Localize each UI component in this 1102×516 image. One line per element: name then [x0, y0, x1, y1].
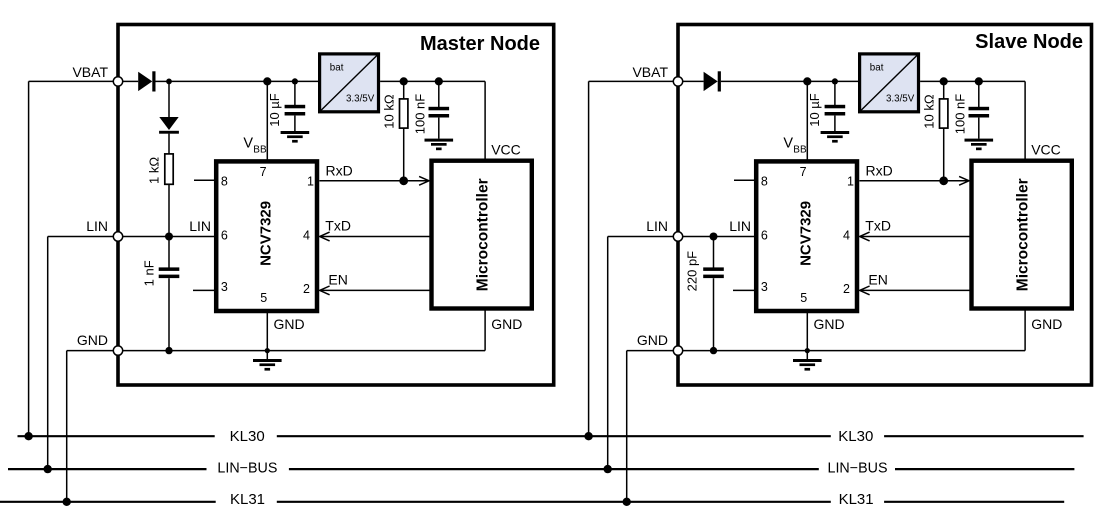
- wire VBAT drop to KL30 (master): [28, 81, 30, 436]
- junction LIN / cap (master): [165, 233, 173, 241]
- junction VBAT/KL30 (master): [24, 432, 32, 440]
- arrowhead TxD into NCV7329 (master): [320, 232, 330, 241]
- svg-text:GND: GND: [1031, 316, 1062, 332]
- svg-text:1: 1: [307, 175, 314, 189]
- resistor 1 kOhm LIN pull-up (master): [165, 154, 173, 184]
- svg-text:100 nF: 100 nF: [412, 94, 427, 135]
- wire RxD (slave): [859, 180, 968, 182]
- svg-text:GND: GND: [77, 332, 108, 348]
- junction RxD pull-up (slave): [939, 176, 948, 185]
- svg-text:VBAT: VBAT: [72, 64, 108, 80]
- svg-text:LIN−BUS: LIN−BUS: [828, 460, 888, 476]
- svg-text:TxD: TxD: [865, 218, 891, 234]
- svg-text:EN: EN: [868, 271, 887, 287]
- node LIN terminal (master): [113, 232, 122, 241]
- svg-text:KL30: KL30: [230, 428, 265, 445]
- wire LIN drop to LIN-BUS (slave): [607, 237, 609, 470]
- svg-text:LIN: LIN: [86, 218, 108, 234]
- wire 10uF bottom lead (master): [294, 116, 296, 131]
- wire 1nF top lead (master): [168, 237, 170, 269]
- wire VBAT to diode anode (slave): [683, 80, 704, 82]
- wire diode to 1k resistor (master): [168, 134, 170, 154]
- wire VCC down to microcontroller (master): [484, 81, 486, 160]
- junction 1nF/GND rail (master): [165, 347, 172, 354]
- capacitor C1 10 uF (slave): [825, 105, 846, 116]
- wire VCC down to microcontroller (slave): [1024, 81, 1026, 160]
- svg-text:GND: GND: [491, 316, 522, 332]
- junction VCC/10k (slave): [940, 77, 948, 85]
- svg-text:RxD: RxD: [866, 163, 893, 179]
- wire diode cathode to junction (master): [156, 80, 170, 82]
- wire TxD (slave): [860, 236, 971, 238]
- svg-text:VBAT: VBAT: [632, 64, 668, 80]
- svg-text:3: 3: [221, 280, 228, 294]
- svg-text:LIN: LIN: [189, 218, 211, 234]
- wire VBAT rail VBB to 10uF (slave): [807, 80, 835, 82]
- svg-text:BB: BB: [253, 145, 267, 156]
- wire VBB down to pin 7 (slave): [806, 81, 808, 161]
- junction VCC/100nF (master): [435, 77, 443, 85]
- svg-text:bat: bat: [330, 63, 344, 74]
- ground below 10uF (master): [281, 131, 310, 143]
- svg-text:2: 2: [843, 282, 850, 296]
- svg-text:3: 3: [761, 280, 768, 294]
- IC U1 NCV7329 transceiver (slave): [756, 161, 857, 311]
- diode D3 LIN pull-up (master): [159, 117, 179, 134]
- Slave node box: [678, 25, 1092, 386]
- junction LIN/LIN-BUS (slave): [604, 465, 612, 473]
- svg-text:8: 8: [761, 175, 768, 189]
- wire 100nF bottom lead (slave): [978, 118, 980, 139]
- arrowhead TxD into NCV7329 (slave): [860, 232, 870, 241]
- svg-text:GND: GND: [814, 316, 845, 332]
- svg-text:LIN: LIN: [729, 218, 751, 234]
- svg-text:TxD: TxD: [325, 218, 351, 234]
- bus line LIN-BUS: [8, 468, 1074, 470]
- junction VBAT/KL30 (slave): [584, 432, 592, 440]
- arrowhead RxD into microcontroller (slave): [959, 176, 969, 185]
- wire VCC rail from regulator (slave): [920, 80, 1025, 82]
- junction 220pF/GND rail (slave): [710, 347, 717, 354]
- wire 10uF top lead (master): [294, 81, 296, 105]
- wire 100nF bottom lead (master): [438, 118, 440, 139]
- wire 1nF bottom lead (master): [168, 278, 170, 350]
- arrowhead EN into NCV7329 (master): [320, 286, 330, 295]
- junction LIN / cap (slave): [710, 233, 718, 241]
- bus line KL31: [0, 501, 1064, 503]
- junction GND rail / pin5 (master): [265, 348, 270, 353]
- svg-text:bat: bat: [870, 63, 884, 74]
- wire EN (master): [320, 289, 431, 291]
- svg-text:RxD: RxD: [326, 163, 353, 179]
- svg-text:Master Node: Master Node: [420, 33, 540, 55]
- ground below 100nF (master): [425, 139, 454, 151]
- svg-text:7: 7: [800, 165, 807, 179]
- wire VBAT stub outside (slave): [589, 80, 674, 82]
- svg-text:V: V: [243, 136, 253, 152]
- IC U2 Microcontroller (master): [432, 161, 532, 309]
- svg-text:NCV7329: NCV7329: [797, 201, 814, 266]
- wire GND rail to microcontroller (slave): [1024, 309, 1026, 351]
- junction VBB tap (slave): [803, 77, 811, 85]
- svg-text:4: 4: [843, 229, 850, 243]
- IC U2 Microcontroller (slave): [972, 161, 1072, 309]
- wire LIN stub outside (slave): [608, 236, 674, 238]
- ground below 100nF (slave): [965, 139, 994, 151]
- node VBAT terminal (master): [113, 77, 122, 86]
- wire GND drop to KL31 (slave): [626, 351, 628, 502]
- wire 220pF top lead (slave): [713, 237, 715, 269]
- svg-text:GND: GND: [637, 332, 668, 348]
- wire 10k top lead (slave): [943, 81, 945, 99]
- junction GND rail / pin5 (slave): [805, 348, 810, 353]
- wire GND drop to KL31 (master): [66, 351, 68, 502]
- wire VBAT rail to regulator input (slave): [835, 80, 858, 82]
- node GND terminal (slave): [673, 346, 682, 355]
- junction GND/KL31 (slave): [623, 498, 631, 506]
- ground below 10uF (slave): [821, 131, 850, 143]
- svg-text:10 µF: 10 µF: [267, 93, 282, 127]
- junction LIN/LIN-BUS (master): [44, 465, 52, 473]
- ground symbol GND rail (master): [253, 359, 282, 371]
- svg-text:1 kΩ: 1 kΩ: [147, 157, 162, 184]
- wire RxD (master): [319, 180, 428, 182]
- svg-text:10 kΩ: 10 kΩ: [381, 94, 396, 129]
- wire 10k bottom lead to RxD (master): [403, 128, 405, 181]
- arrowhead EN into NCV7329 (slave): [860, 286, 870, 295]
- junction VBB tap (master): [263, 77, 271, 85]
- ground symbol GND rail (slave): [793, 359, 822, 371]
- wire VBAT stub outside (master): [29, 80, 114, 82]
- wire 100nF top lead (slave): [978, 81, 980, 107]
- wire TxD (master): [320, 236, 431, 238]
- svg-text:220 pF: 220 pF: [684, 251, 699, 292]
- node LIN terminal (slave): [673, 232, 682, 241]
- wire VCC rail from regulator (master): [380, 80, 485, 82]
- svg-text:3.3/5V: 3.3/5V: [346, 93, 375, 104]
- wire VBAT rail VBB to 10uF (master): [267, 80, 295, 82]
- svg-text:100 nF: 100 nF: [952, 94, 967, 135]
- svg-text:LIN−BUS: LIN−BUS: [217, 460, 277, 476]
- wire pin 5 to GND rail (slave): [806, 311, 808, 351]
- junction 10uF tap (master): [292, 78, 298, 84]
- junction 10uF tap (slave): [832, 78, 838, 84]
- wire VBAT rail to VBB tap (master): [169, 80, 267, 82]
- wire LIN to pin 6 (slave): [683, 236, 754, 238]
- svg-text:10 kΩ: 10 kΩ: [921, 94, 936, 129]
- wire LIN drop to LIN-BUS (master): [47, 237, 49, 470]
- wire 10k bottom lead to RxD (slave): [943, 128, 945, 181]
- junction VCC/10k (master): [400, 77, 408, 85]
- capacitor C1 10 uF (master): [285, 105, 306, 116]
- node VBAT terminal (slave): [673, 77, 682, 86]
- svg-text:4: 4: [303, 229, 310, 243]
- junction VCC/100nF (slave): [975, 77, 983, 85]
- svg-text:GND: GND: [274, 316, 305, 332]
- wire 10uF top lead (slave): [834, 81, 836, 105]
- svg-text:EN: EN: [328, 271, 347, 287]
- svg-text:Microcontroller: Microcontroller: [474, 178, 491, 291]
- wire 100nF top lead (master): [438, 81, 440, 107]
- wire GND stub outside (master): [67, 350, 114, 352]
- wire 1k to LIN (master): [168, 184, 170, 236]
- voltage regulator bat 3.3/5V (slave): [860, 54, 919, 112]
- svg-text:1 nF: 1 nF: [142, 260, 157, 286]
- diode D1 series reverse-protection (master): [138, 71, 155, 91]
- svg-text:2: 2: [303, 282, 310, 296]
- wire branch diode lead (master): [168, 81, 170, 117]
- wire GND rail to microcontroller (master): [484, 309, 486, 351]
- svg-text:KL31: KL31: [839, 491, 874, 508]
- wire VBB down to pin 7 (master): [266, 81, 268, 161]
- svg-text:Slave Node: Slave Node: [975, 31, 1083, 53]
- svg-text:V: V: [783, 136, 793, 152]
- wire LIN to pin 6 (master): [123, 236, 214, 238]
- wire LIN stub outside (master): [48, 236, 114, 238]
- svg-text:VCC: VCC: [1031, 142, 1061, 158]
- svg-text:KL31: KL31: [230, 491, 265, 508]
- svg-text:5: 5: [260, 291, 267, 305]
- svg-text:1: 1: [847, 175, 854, 189]
- wire VBAT drop to KL30 (slave): [588, 81, 590, 436]
- wire pin 3 stub (master): [193, 289, 216, 291]
- arrowhead RxD into microcontroller (master): [419, 176, 429, 185]
- capacitor C2 100 nF (slave): [969, 107, 990, 118]
- junction RxD pull-up (master): [399, 176, 408, 185]
- junction GND/KL31 (master): [62, 498, 70, 506]
- svg-text:6: 6: [221, 229, 228, 243]
- node GND terminal (master): [113, 346, 122, 355]
- svg-text:8: 8: [221, 175, 228, 189]
- wire ground tap stub (slave): [806, 351, 808, 359]
- IC U1 NCV7329 transceiver (master): [216, 161, 317, 311]
- wire VBAT to diode anode (master): [123, 80, 138, 82]
- wire pin 8 stub (slave): [734, 179, 756, 181]
- svg-text:3.3/5V: 3.3/5V: [886, 93, 915, 104]
- capacitor C2 100 nF (master): [429, 107, 450, 118]
- wire 10k top lead (master): [403, 81, 405, 99]
- wire EN (slave): [860, 289, 971, 291]
- svg-text:LIN: LIN: [646, 218, 668, 234]
- svg-text:6: 6: [761, 229, 768, 243]
- wire pin 8 stub (master): [194, 179, 216, 181]
- svg-text:7: 7: [260, 165, 267, 179]
- wire GND rail (master): [123, 350, 485, 352]
- wire pin 5 to GND rail (master): [266, 311, 268, 351]
- junction VBAT rail / pull-up branch (master): [166, 79, 172, 85]
- svg-text:10 µF: 10 µF: [807, 93, 822, 127]
- svg-text:Microcontroller: Microcontroller: [1014, 178, 1031, 291]
- wire diode cathode to VBB tap (slave): [721, 80, 807, 82]
- svg-text:NCV7329: NCV7329: [257, 201, 274, 266]
- resistor 10 kOhm RxD pull-up (slave): [940, 99, 948, 128]
- diode D2 series reverse-protection (slave): [704, 71, 721, 91]
- voltage regulator bat 3.3/5V (master): [320, 54, 379, 112]
- wire pin 3 stub (slave): [733, 289, 756, 291]
- svg-text:VCC: VCC: [491, 142, 521, 158]
- resistor 10 kOhm RxD pull-up (master): [400, 99, 408, 128]
- Master node box: [118, 25, 554, 386]
- capacitor C3 1 nF (master): [159, 267, 180, 278]
- wire VBAT rail to regulator input (master): [295, 80, 318, 82]
- svg-text:5: 5: [800, 291, 807, 305]
- bus line KL30: [18, 435, 1084, 437]
- wire ground tap stub (master): [266, 351, 268, 359]
- svg-text:BB: BB: [793, 145, 807, 156]
- wire 10uF bottom lead (slave): [834, 116, 836, 131]
- wire GND rail (slave): [683, 350, 1025, 352]
- wire 220pF bottom lead (slave): [713, 278, 715, 350]
- capacitor C4 220 pF (slave): [703, 267, 724, 278]
- svg-text:KL30: KL30: [838, 428, 873, 445]
- wire GND stub outside (slave): [627, 350, 674, 352]
